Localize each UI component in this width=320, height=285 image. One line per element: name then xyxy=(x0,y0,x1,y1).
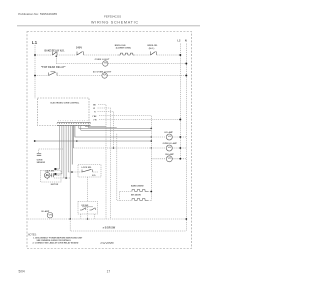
pin wire 6 xyxy=(69,126,71,220)
pin wire 2 xyxy=(56,126,62,175)
wire bottom return xyxy=(70,219,186,231)
wire L1 fan line xyxy=(35,140,152,142)
svg-text:LOCK SW.: LOCK SW. xyxy=(82,167,92,169)
svg-text:►B DR SW: ►B DR SW xyxy=(102,227,115,230)
lamp DS3 xyxy=(151,136,186,138)
node junction bottom/N xyxy=(185,218,187,220)
wire vertical v117 xyxy=(117,134,120,201)
node junction L1/C xyxy=(34,75,36,77)
svg-text:BAKE 2850W: BAKE 2850W xyxy=(131,185,144,188)
svg-text:BK: BK xyxy=(93,105,96,107)
node junction B/N xyxy=(185,63,187,65)
svg-text:L1: L1 xyxy=(32,40,38,45)
pin wire 8 xyxy=(72,126,74,149)
svg-text:ON LAMP: ON LAMP xyxy=(165,153,174,156)
svg-text:N.O.: N.O. xyxy=(92,175,96,177)
node DS4/L2 xyxy=(179,147,181,149)
outer dashed frame xyxy=(27,32,192,249)
node junction y119/L2 xyxy=(179,119,181,121)
wire branch B drop xyxy=(56,55,58,57)
svg-text:Y BK: Y BK xyxy=(92,116,97,118)
svg-text:(LOWER OVEN): (LOWER OVEN) xyxy=(116,47,131,49)
node right end xyxy=(151,140,153,142)
wire C end xyxy=(107,75,186,77)
switch S3 xyxy=(150,52,152,56)
wire A mid3 xyxy=(137,54,151,56)
switch S7 xyxy=(90,209,92,211)
wire A mid2 xyxy=(84,54,119,56)
node junction C/N xyxy=(185,75,187,77)
pin wire 10 xyxy=(81,126,152,131)
wire T inside xyxy=(87,207,89,219)
svg-text:NOTES:: NOTES: xyxy=(28,234,37,237)
svg-text:240V: 240V xyxy=(76,46,82,50)
EOC box xyxy=(38,98,90,126)
node junction E2 right xyxy=(150,191,152,193)
wire line A 240V xyxy=(35,54,53,56)
svg-text:P12V0588: P12V0588 xyxy=(101,241,115,245)
wire B end xyxy=(108,63,186,65)
svg-text:BAKE RELAY N.O.: BAKE RELAY N.O. xyxy=(45,49,65,52)
pin wire 1 xyxy=(56,126,60,170)
node junction door/bottom xyxy=(87,218,89,220)
node DS3/L2 xyxy=(179,136,181,138)
svg-text:ELECTRONIC OVEN CONTROL: ELECTRONIC OVEN CONTROL xyxy=(51,103,81,105)
svg-text:LR LAMP: LR LAMP xyxy=(164,131,173,134)
lock switch box xyxy=(78,165,101,178)
switch S6 xyxy=(80,209,82,211)
wire line B xyxy=(56,63,102,65)
svg-text:DR SW.: DR SW. xyxy=(82,205,90,207)
svg-text:40 OVEN LIGHT: 40 OVEN LIGHT xyxy=(93,71,112,74)
lamp DS5 xyxy=(151,158,186,160)
heater element E1 square wave xyxy=(119,53,135,55)
svg-text:W: W xyxy=(93,108,95,110)
switch S1 xyxy=(52,52,54,56)
node junction bottom/x70 xyxy=(69,218,71,220)
node junction v113 xyxy=(113,147,115,149)
pin wire 4 xyxy=(65,126,67,179)
wire L1 bus xyxy=(34,45,36,98)
net stub A1 xyxy=(54,168,56,170)
pin wire 9 xyxy=(79,126,152,129)
node junction p10/y141 xyxy=(76,140,78,142)
svg-text:5/04: 5/04 xyxy=(19,269,25,273)
svg-text:SEE OWNERS GUIDE FOR DETAILS: SEE OWNERS GUIDE FOR DETAILS xyxy=(37,239,72,242)
svg-text:SENSOR: SENSOR xyxy=(37,162,46,164)
pin wire 11 xyxy=(86,126,107,127)
node left end xyxy=(34,140,36,142)
svg-text:OVEN LIGHT: OVEN LIGHT xyxy=(95,59,110,61)
svg-text:(N.O.): (N.O.) xyxy=(149,48,155,50)
pin wire 5 xyxy=(67,126,69,173)
connector scallops U1 xyxy=(57,122,91,123)
wire box down xyxy=(87,177,89,202)
switch S4 light switch xyxy=(48,73,50,76)
svg-text:V W: V W xyxy=(93,120,97,122)
motor M1 xyxy=(44,173,50,179)
wire S7 drop xyxy=(94,214,96,219)
svg-text:17: 17 xyxy=(107,269,111,273)
svg-text:2. CONNECT BK LEAD AT OVEN RE: 2. CONNECT BK LEAD AT OVEN RELAY BOARD xyxy=(33,242,79,245)
wire motor terminals xyxy=(50,174,52,176)
wire line C start xyxy=(35,75,48,77)
pin wire 3 xyxy=(63,126,65,179)
node rail/B xyxy=(151,147,152,148)
lock motor box xyxy=(41,171,62,183)
svg-text:*TOP REAR RELAY*: *TOP REAR RELAY* xyxy=(41,66,66,69)
svg-text:N: N xyxy=(185,39,187,43)
svg-text:R: R xyxy=(94,112,96,114)
wire A end xyxy=(157,54,181,56)
wire C mid xyxy=(57,75,102,77)
svg-text:LOCK MO.: LOCK MO. xyxy=(45,170,55,172)
svg-text:WIRING SCHEMATIC: WIRING SCHEMATIC xyxy=(91,21,139,25)
net stub A2 xyxy=(54,173,56,175)
svg-text:BR 3400W: BR 3400W xyxy=(131,193,141,196)
oven sensor plug xyxy=(39,149,64,154)
node junction A/L2 xyxy=(179,54,181,56)
svg-text:L2: L2 xyxy=(177,39,181,43)
svg-text:MOTOR: MOTOR xyxy=(51,184,59,186)
node DS5/L2 xyxy=(179,158,181,160)
door switch box xyxy=(78,202,98,215)
wire N bus xyxy=(185,44,187,232)
node junction box feed xyxy=(71,171,73,173)
wire A mid xyxy=(57,54,77,56)
svg-text:FEF354CGS: FEF354CGS xyxy=(104,14,121,18)
wire L2 bus xyxy=(179,44,181,160)
switch S2 xyxy=(76,52,78,56)
pin wire 12 xyxy=(89,126,117,128)
node junction fan1 xyxy=(151,128,153,130)
svg-text:OVEN LK LAMP: OVEN LK LAMP xyxy=(163,142,178,145)
lamp DS4 xyxy=(73,147,186,149)
wire lamp A feed xyxy=(75,126,151,138)
pin numbers row xyxy=(58,120,89,122)
wire motor line xyxy=(54,177,70,179)
lamp DS1 oven light xyxy=(103,61,108,66)
lamp DS2 xyxy=(102,73,107,78)
node junction L1/A xyxy=(34,54,36,56)
node rail/A xyxy=(151,136,152,137)
bottom lamp DS6 xyxy=(28,218,186,220)
svg-text:Publication No: 5995426085: Publication No: 5995426085 xyxy=(18,12,57,16)
svg-text:B LAMP: B LAMP xyxy=(42,210,50,213)
wire S6 drop xyxy=(80,214,82,219)
node junction motor line xyxy=(65,177,67,179)
header rule xyxy=(17,25,200,27)
bake broil elements left rail xyxy=(119,192,121,201)
switch S5 inside xyxy=(68,171,82,173)
pin wire 7 xyxy=(71,126,73,165)
